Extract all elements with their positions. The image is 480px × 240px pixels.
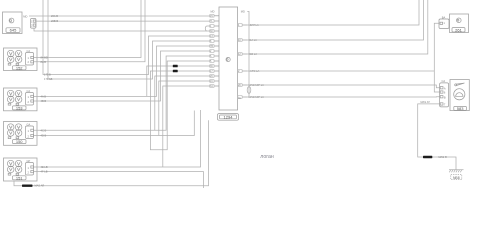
svg-text:583: 583 [457, 106, 464, 111]
wire pin34 branch down to 151.1 [163, 86, 210, 167]
wire 151.1 to bottom edge [34, 110, 201, 167]
svg-text:150: 150 [16, 139, 23, 144]
svg-text:153: 153 [16, 105, 23, 110]
svg-text:173 AB: 173 AB [44, 77, 53, 81]
svg-text:84 BD: 84 BD [41, 56, 48, 60]
svg-text:645: 645 [10, 28, 17, 33]
component 645 [3, 12, 23, 34]
svg-text:NB8: NB8 [453, 176, 460, 180]
wire 150.1 to pin6 [34, 56, 210, 130]
svg-text:4A B: 4A B [41, 94, 47, 98]
svg-text:MD: MD [241, 10, 245, 14]
stub hook pin1 [205, 26, 209, 31]
wire 153.2 to pin2 [34, 51, 210, 101]
svg-text:MD: MD [211, 10, 215, 14]
splice tag K4 [423, 156, 432, 158]
wire U1294 pin10 riser to top [247, 0, 424, 40]
connector 151 [4, 158, 38, 181]
svg-text:MAS AT: MAS AT [421, 100, 431, 104]
wire pin16 branch down to 150.2 [159, 81, 210, 136]
wire riser to top edge A [43, 0, 210, 75]
wire riser to top edge B [48, 0, 210, 79]
svg-text:4C B: 4C B [41, 128, 47, 132]
wire U1294 pin12 riser to top [247, 0, 428, 54]
wire U1294 pin1R riser to top [247, 0, 419, 25]
wire labels left [41, 14, 59, 174]
svg-text:MAS AR: MAS AR [35, 184, 45, 188]
wire 150.2 to pin5 [34, 111, 195, 136]
wire pin36 branch down to 153.1 [147, 66, 210, 96]
svg-text:20A B: 20A B [51, 14, 58, 18]
svg-text:A: A [444, 86, 446, 90]
svg-text:261: 261 [455, 27, 462, 32]
svg-text:4B B: 4B B [41, 99, 47, 103]
wire U1294 pin31 to 583 [247, 96, 440, 98]
wire 645.2 to U1294 pin7L [36, 20, 210, 22]
wire 151 ground branch [14, 120, 209, 186]
svg-text:CA: CA [27, 89, 31, 93]
wire pin26 branch down to 150.1 [155, 76, 210, 130]
connector 153 [4, 88, 38, 111]
splice tag K1 [173, 65, 178, 68]
left pin row of U1294 [210, 15, 219, 89]
wire 152.2 riser to top [34, 0, 146, 62]
splice tag K2 [173, 70, 178, 73]
wire U1294 pin2R riser to top [247, 70, 434, 72]
svg-text:151: 151 [16, 175, 23, 180]
svg-text:4D B: 4D B [41, 134, 47, 138]
svg-text:CA: CA [442, 79, 446, 83]
svg-text:BA: BA [442, 15, 446, 19]
wire 153.1 to pin7B [34, 46, 210, 96]
wire pin17 branch down to 153.2 [150, 61, 209, 150]
svg-text:MAS R: MAS R [439, 155, 447, 159]
svg-text:4E LB: 4E LB [41, 165, 48, 169]
splice tag K3 [22, 185, 33, 187]
component 583 [440, 79, 470, 111]
right pin row of U1294 [238, 23, 264, 100]
svg-text:152: 152 [16, 65, 23, 70]
component 261 [439, 14, 469, 33]
svg-text:MD: MD [23, 14, 27, 18]
wire 583 ground run [418, 104, 456, 170]
wire MD drop with twist [247, 12, 249, 98]
svg-text:4F LB: 4F LB [41, 170, 48, 174]
connector 150 [4, 122, 38, 146]
svg-text:B: B [444, 95, 446, 99]
wire 645.1 to U1294 pin15 [29, 15, 210, 17]
wire 152.1 riser to top [34, 0, 142, 58]
svg-text:1294: 1294 [224, 115, 234, 120]
connector of 645 [23, 14, 36, 28]
svg-text:GP: GP [27, 159, 31, 163]
wire U1294 pin20 to 583 [247, 85, 440, 88]
control unit U1294 [211, 7, 245, 120]
svg-text:CA: CA [27, 49, 31, 53]
wire 261.1 junction riser [434, 23, 439, 92]
svg-text:173 B: 173 B [44, 73, 51, 77]
svg-text:GA: GA [27, 122, 31, 126]
twisted pair mark [247, 87, 251, 94]
svg-text:8A B: 8A B [41, 60, 47, 64]
connector 152 [4, 48, 38, 71]
ground NB8 [449, 170, 464, 180]
svg-text:7B: 7B [210, 45, 213, 48]
svg-text:20B B: 20B B [51, 19, 58, 23]
wire 645.3 to U1294 pin30 [34, 28, 210, 31]
wire 151.2 riser to U1294 bottom [34, 172, 204, 188]
svg-text:логан: логан [260, 154, 274, 160]
